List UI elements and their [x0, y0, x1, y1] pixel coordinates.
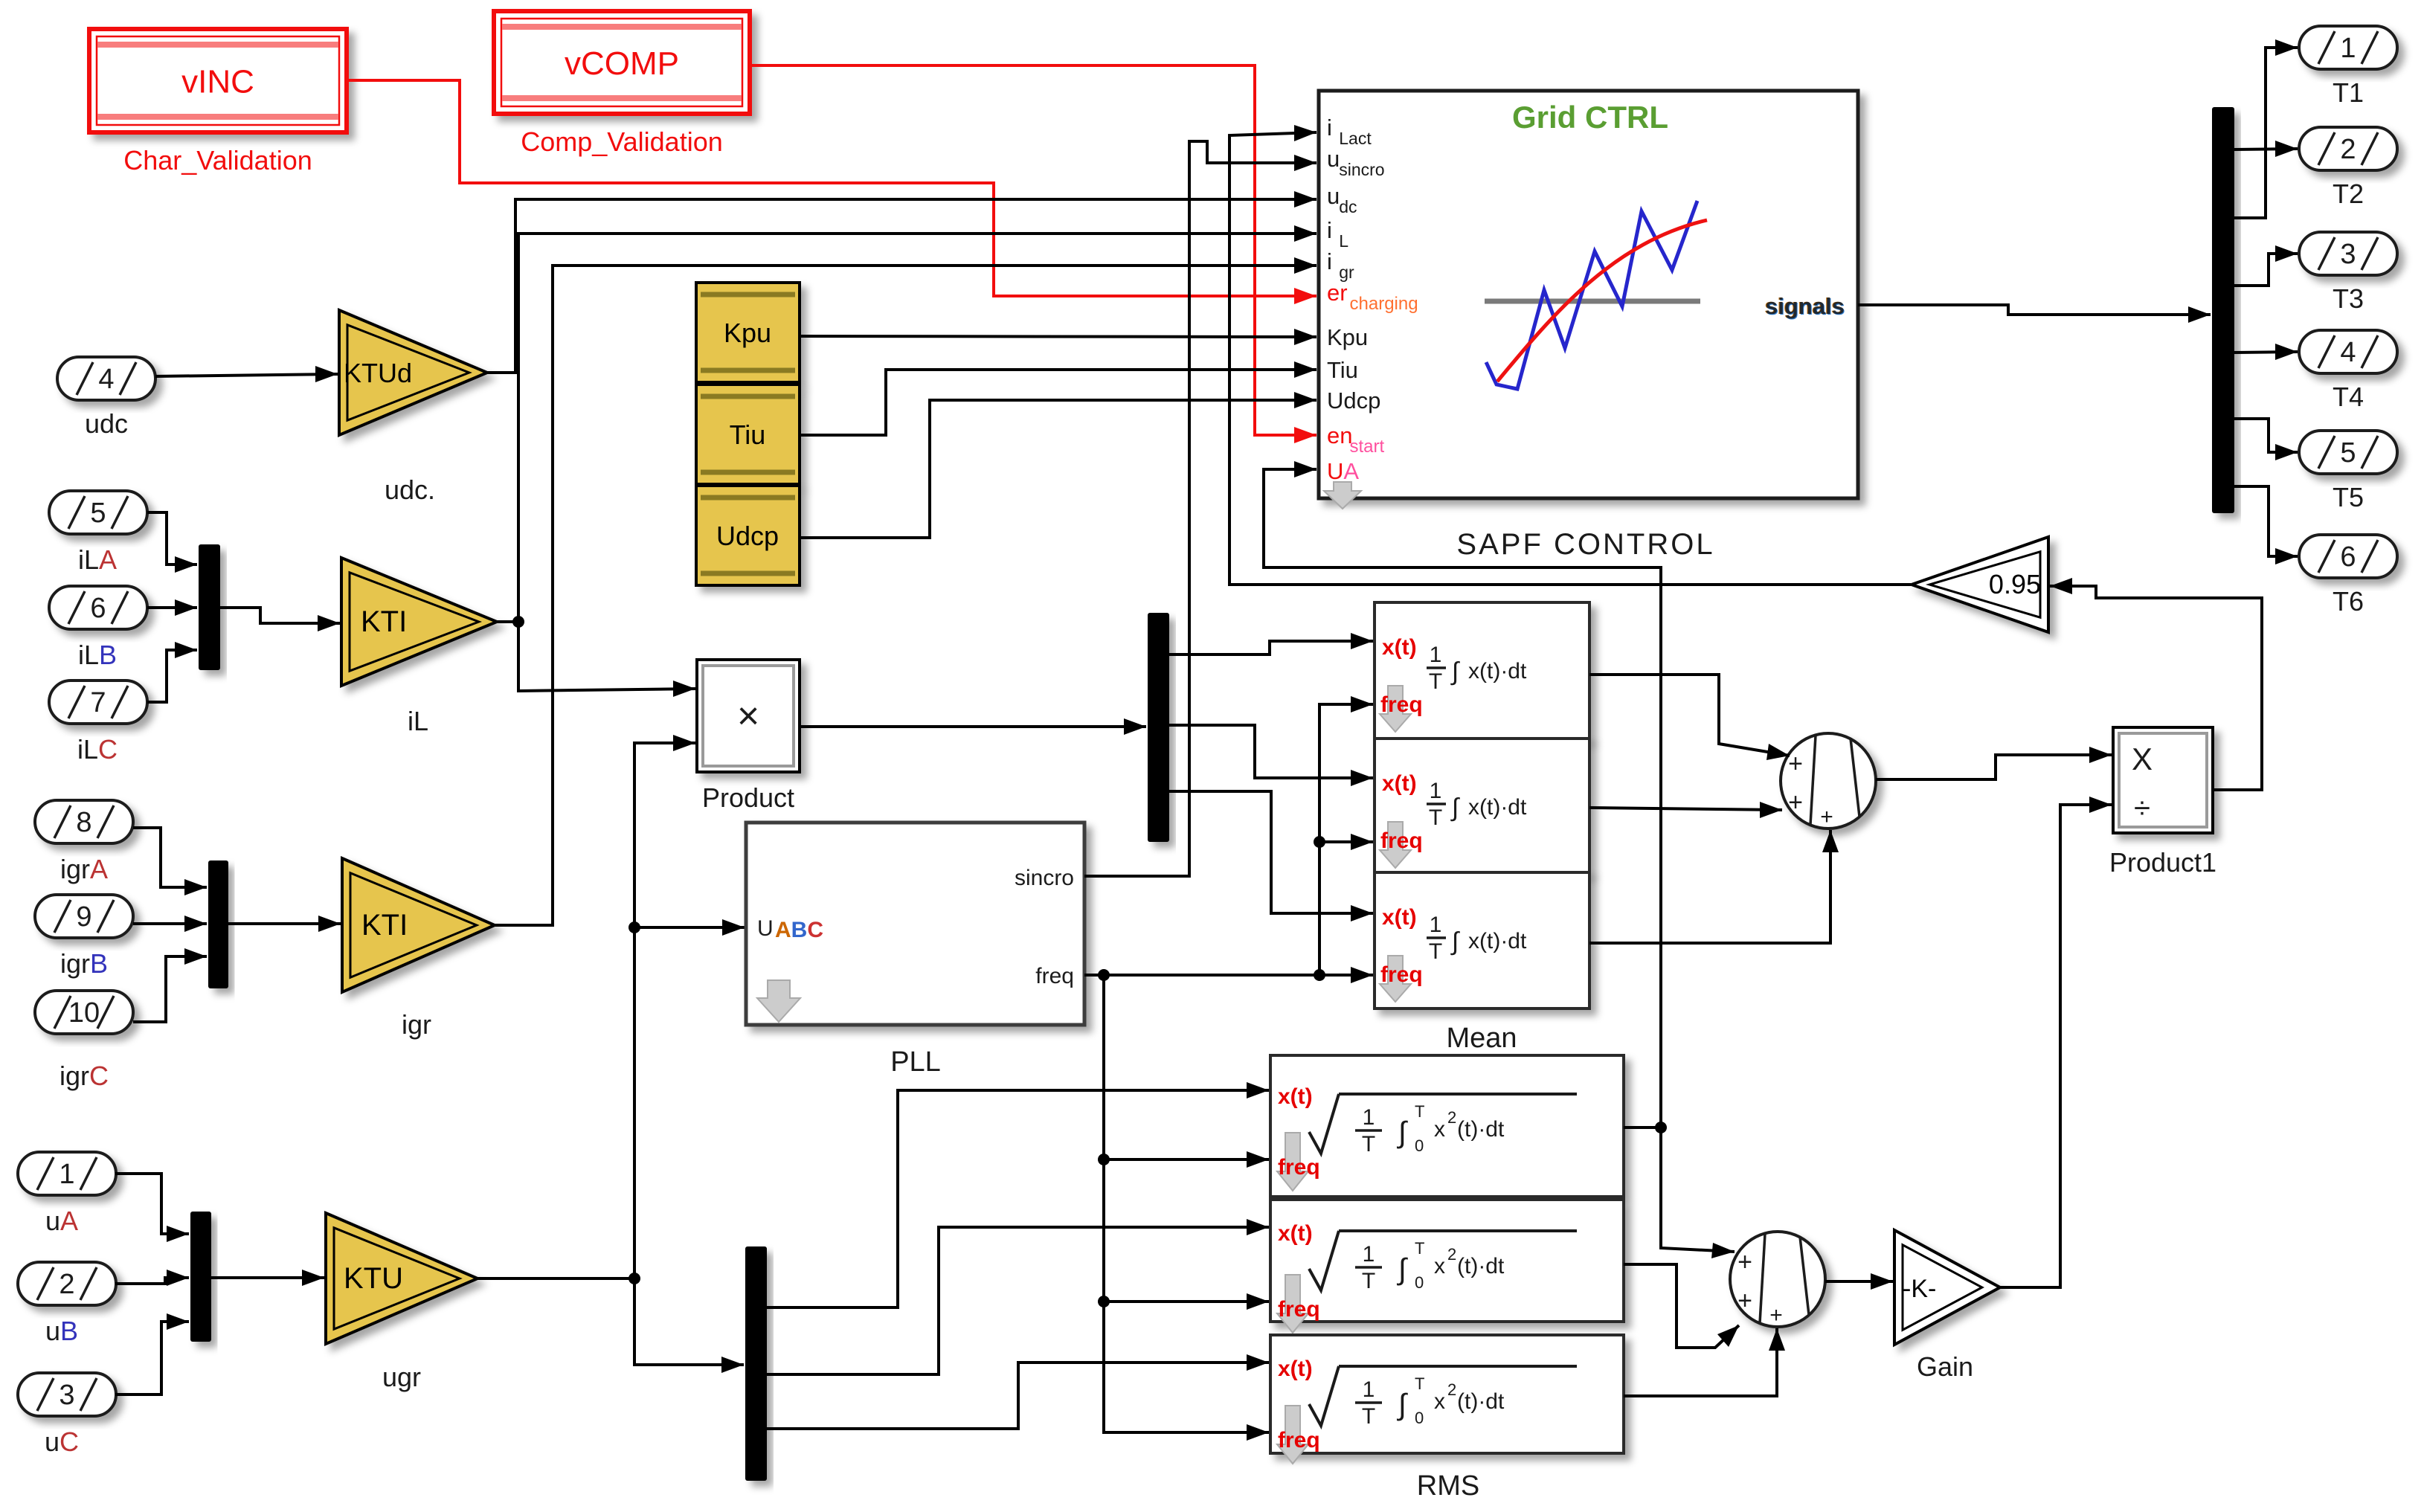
goto block vCOMP [494, 11, 750, 114]
wire uA to mux [115, 1174, 189, 1234]
svg-text:T2: T2 [2333, 178, 2364, 209]
mux ugr [190, 1212, 211, 1342]
wire ugr to PLL UABC [634, 926, 745, 929]
svg-text:vCOMP: vCOMP [565, 45, 679, 82]
svg-text:+: + [1788, 750, 1803, 778]
svg-text:6: 6 [2340, 541, 2356, 573]
wire mux to KTI igr [228, 922, 341, 925]
svg-text:T6: T6 [2333, 586, 2364, 617]
wire iLC to mux [147, 650, 197, 702]
wire Mean3 to sum [1589, 830, 1830, 943]
inport 10 igrC [35, 991, 133, 1034]
svg-text:3: 3 [2340, 239, 2356, 270]
wire uC to mux [115, 1322, 189, 1394]
svg-text:Kpu: Kpu [1327, 324, 1368, 350]
plot axis gray [1485, 299, 1700, 304]
svg-text:freq: freq [1380, 692, 1423, 717]
svg-text:9: 9 [76, 901, 91, 933]
inport 2 uB [18, 1262, 116, 1305]
svg-text:3: 3 [59, 1380, 74, 1411]
svg-text:uB: uB [45, 1316, 78, 1346]
svg-text:L: L [1339, 231, 1348, 251]
svg-text:7: 7 [90, 687, 106, 718]
svg-text:iLB: iLB [78, 640, 117, 670]
inport 3 uC [18, 1373, 116, 1416]
svg-text:10: 10 [68, 997, 100, 1029]
svg-text:1: 1 [59, 1159, 74, 1190]
inport 8 igrA [35, 800, 133, 843]
sum Add Mean [1781, 733, 1876, 829]
svg-text:igrB: igrB [60, 948, 108, 979]
svg-text:(t)·dt: (t)·dt [1457, 1389, 1505, 1414]
wire freq to RMS1 freq [1104, 1158, 1269, 1161]
wire demux to RMS1 xt [767, 1090, 1269, 1307]
mean block 3 [1375, 872, 1589, 1008]
svg-text:+: + [1737, 1248, 1752, 1276]
svg-text:2: 2 [59, 1269, 74, 1300]
wire RMS3 to sum [1624, 1328, 1777, 1396]
svg-text:8: 8 [76, 807, 91, 838]
svg-text:T: T [1415, 1374, 1424, 1393]
svg-text:u: u [1327, 146, 1340, 172]
goto block vINC [89, 29, 347, 132]
wire Product1 to gain095 [2050, 586, 2262, 790]
svg-text:udc.: udc. [385, 474, 435, 505]
outport 3 [2299, 232, 2397, 275]
svg-text:x(t): x(t) [1382, 771, 1417, 796]
svg-text:2: 2 [1447, 1108, 1456, 1127]
mux igr [208, 860, 228, 988]
svg-text:PLL: PLL [890, 1046, 941, 1078]
svg-text:×: × [737, 695, 759, 738]
wire udc to SAPF [487, 199, 1317, 373]
svg-text:RMS: RMS [1417, 1470, 1479, 1502]
svg-text:1: 1 [1363, 1242, 1375, 1267]
svg-text:Udcp: Udcp [716, 521, 779, 551]
svg-text:÷: ÷ [2134, 792, 2150, 825]
wire demux to T6 [2234, 486, 2298, 556]
plot blue sawtooth [1486, 201, 1697, 389]
gain KTU ugr [326, 1213, 478, 1344]
wire Tiu to SAPF [800, 370, 1317, 435]
svg-text:6: 6 [90, 593, 106, 624]
svg-text:Mean: Mean [1446, 1023, 1517, 1054]
svg-text:1: 1 [1363, 1377, 1375, 1402]
wire freq to Mean2 freq [1319, 840, 1373, 843]
wire iLB to mux [147, 606, 197, 609]
svg-text:x(t)·dt: x(t)·dt [1468, 659, 1527, 683]
svg-text:udc: udc [85, 408, 128, 439]
svg-text:2: 2 [1447, 1245, 1456, 1264]
gain KTI igr [342, 858, 495, 992]
svg-text:freq: freq [1380, 962, 1423, 987]
svg-text:sincro: sincro [1339, 160, 1384, 179]
svg-text:iLA: iLA [78, 544, 117, 575]
svg-text:igrA: igrA [60, 854, 108, 884]
svg-text:i: i [1327, 217, 1332, 243]
svg-text:KTU: KTU [344, 1262, 403, 1295]
wire Udcp to SAPF [800, 400, 1317, 538]
constant Udcp [696, 486, 800, 585]
svg-text:1: 1 [1430, 779, 1442, 803]
mean block 1 [1375, 602, 1589, 739]
wire Kpu to SAPF [800, 336, 1317, 337]
wire en_start (vCOMP to SAPF en) [750, 65, 1317, 435]
svg-text:T: T [1415, 1239, 1424, 1258]
svg-text:er: er [1327, 280, 1348, 306]
wire iL branch to Product [518, 622, 695, 691]
svg-text:x(t)·dt: x(t)·dt [1468, 929, 1527, 953]
svg-text:KTI: KTI [361, 909, 408, 942]
wire ugr down to demux [634, 1278, 744, 1365]
PLL block [746, 823, 1084, 1025]
svg-text:+: + [1769, 1303, 1783, 1328]
wire igrB to mux [133, 922, 207, 925]
demux ugr3 [745, 1246, 767, 1481]
svg-text:x: x [1434, 1117, 1445, 1142]
wire sum to Gain [1825, 1280, 1893, 1283]
svg-text:1: 1 [2340, 33, 2356, 64]
svg-text:freq: freq [1278, 1297, 1320, 1322]
svg-text:Char_Validation: Char_Validation [123, 145, 312, 176]
svg-text:signals: signals [1765, 293, 1845, 319]
svg-text:x(t): x(t) [1278, 1084, 1313, 1109]
wire mux to KTU [211, 1276, 324, 1279]
svg-text:Tiu: Tiu [730, 419, 766, 450]
wire demux1 to Mean1 xt [1169, 641, 1373, 654]
product block [697, 660, 800, 772]
svg-text:i: i [1327, 248, 1332, 274]
wire signals to demux [1858, 305, 2211, 315]
wire uB to mux [115, 1278, 189, 1284]
svg-text:Lact: Lact [1339, 129, 1372, 148]
svg-text:x: x [1434, 1389, 1445, 1414]
wire sincro to SAPF u [1084, 141, 1317, 876]
svg-text:T5: T5 [2333, 482, 2364, 512]
wire demux to T4 [2234, 352, 2298, 353]
inport 6 iLB [49, 586, 147, 629]
inport 9 igrB [35, 895, 133, 938]
svg-text:-K-: -K- [1903, 1275, 1936, 1303]
svg-text:5: 5 [2340, 437, 2356, 469]
wire demux to T3 [2234, 254, 2298, 286]
wire igr to SAPF [495, 266, 1317, 925]
wire demux3 to Mean3 xt [1169, 791, 1373, 913]
svg-text:UA: UA [1327, 458, 1359, 484]
gain KTI iL [341, 558, 497, 686]
svg-text:x(t): x(t) [1278, 1221, 1313, 1246]
svg-text:uC: uC [45, 1426, 79, 1457]
svg-text:x(t): x(t) [1278, 1357, 1313, 1381]
svg-text:+: + [1788, 788, 1803, 817]
svg-text:x(t): x(t) [1382, 905, 1417, 930]
svg-text:+: + [1737, 1287, 1752, 1315]
gain KTUd [339, 310, 487, 435]
wire demux to T5 [2234, 419, 2298, 452]
svg-text:vINC: vINC [181, 64, 254, 100]
inport 7 iLC [49, 681, 147, 724]
wire igrA to mux [133, 828, 207, 887]
wire igrC to mux [133, 956, 207, 1022]
gain 0.95 [1912, 537, 2048, 632]
wire freq down to RMS3 freq [1104, 975, 1269, 1432]
svg-text:∫: ∫ [1450, 927, 1460, 956]
wire freq up to Mean1 freq [1319, 704, 1373, 975]
svg-text:KTUd: KTUd [344, 358, 412, 388]
mean block 2 [1375, 739, 1589, 872]
plot red curve [1497, 220, 1707, 382]
svg-text:T3: T3 [2333, 283, 2364, 314]
svg-text:1: 1 [1430, 643, 1442, 667]
svg-text:Product: Product [702, 782, 794, 813]
svg-text:0: 0 [1415, 1136, 1424, 1155]
svg-text:2: 2 [2340, 134, 2356, 165]
wire demux to RMS2 xt [767, 1227, 1269, 1374]
wire demux to T1 [2234, 48, 2298, 218]
svg-text:T: T [1415, 1102, 1424, 1121]
svg-text:freq: freq [1278, 1155, 1320, 1180]
product1 block [2113, 727, 2213, 833]
svg-text:x(t)·dt: x(t)·dt [1468, 795, 1527, 820]
svg-text:∫: ∫ [1450, 657, 1460, 686]
svg-text:0: 0 [1415, 1273, 1424, 1292]
svg-text:Gain: Gain [1917, 1351, 1973, 1382]
outport 6 [2299, 535, 2397, 578]
rms block 2 [1270, 1200, 1624, 1322]
svg-text:Comp_Validation: Comp_Validation [521, 126, 723, 157]
constant Kpu [696, 283, 800, 382]
wire iL to SAPF [497, 234, 1317, 622]
wire Mean2 to sum [1589, 808, 1782, 810]
wire er_charging (vINC to SAPF er) [347, 80, 1317, 296]
svg-text:Grid CTRL: Grid CTRL [1512, 100, 1668, 135]
svg-text:2: 2 [1447, 1380, 1456, 1399]
svg-text:KTI: KTI [361, 605, 407, 638]
outport 1 [2299, 26, 2397, 69]
svg-text:uA: uA [45, 1206, 78, 1236]
svg-text:T: T [1429, 939, 1442, 964]
wire Gain to Product1 div [2000, 805, 2112, 1287]
svg-text:igrC: igrC [60, 1061, 109, 1091]
wire freq to Mean3 freq [1084, 974, 1373, 977]
wire sum to Product1 [1876, 755, 2112, 779]
mux iL [199, 544, 220, 670]
wire mux to KTI iL [220, 608, 340, 623]
wire gain095 to SAPF iLact [1229, 132, 1911, 585]
SAPF CONTROL subsystem [1319, 91, 1858, 498]
svg-text:0: 0 [1415, 1409, 1424, 1427]
rms block 1 [1270, 1055, 1624, 1197]
svg-text:iL: iL [408, 706, 428, 736]
svg-text:SAPF CONTROL: SAPF CONTROL [1456, 528, 1714, 561]
svg-text:X: X [2132, 741, 2153, 776]
svg-text:1: 1 [1363, 1105, 1375, 1130]
wire demux to RMS3 xt [767, 1363, 1269, 1429]
sum Add RMS [1730, 1232, 1825, 1328]
svg-text:(t)·dt: (t)·dt [1457, 1117, 1505, 1142]
svg-text:T4: T4 [2333, 382, 2364, 412]
svg-text:U: U [757, 916, 774, 941]
constant Tiu [696, 385, 800, 484]
svg-text:x(t): x(t) [1382, 635, 1417, 660]
inport 4 udc [57, 357, 155, 400]
wire iLA to mux [147, 512, 197, 564]
svg-text:start: start [1350, 437, 1385, 457]
svg-text:en: en [1327, 422, 1352, 448]
wire ugr up to Product in2 [634, 743, 695, 1278]
svg-text:T: T [1362, 1404, 1375, 1429]
inport 5 iLA [49, 491, 147, 534]
demux product [1148, 613, 1169, 842]
gain -K- [1894, 1230, 2000, 1345]
svg-text:x: x [1434, 1254, 1445, 1278]
svg-text:charging: charging [1350, 294, 1418, 314]
svg-text:T1: T1 [2333, 77, 2364, 108]
wire ugr out [478, 1277, 634, 1280]
svg-text:T: T [1362, 1269, 1375, 1293]
svg-text:+: + [1820, 805, 1833, 829]
rms block 3 [1270, 1335, 1624, 1453]
svg-text:T: T [1429, 669, 1442, 694]
svg-text:Product1: Product1 [2109, 847, 2216, 878]
outport 4 [2299, 330, 2397, 373]
svg-text:0.95: 0.95 [1989, 569, 2041, 599]
svg-text:1: 1 [1430, 913, 1442, 937]
svg-text:freq: freq [1278, 1428, 1320, 1453]
svg-text:freq: freq [1035, 964, 1074, 988]
wire demux to T2 [2234, 149, 2298, 149]
outport 2 [2299, 127, 2397, 170]
wire freq to RMS2 freq [1104, 1300, 1269, 1303]
svg-text:igr: igr [402, 1009, 431, 1040]
svg-text:freq: freq [1380, 829, 1423, 853]
svg-text:T: T [1362, 1132, 1375, 1156]
inport 1 uA [18, 1152, 116, 1195]
svg-text:Udcp: Udcp [1327, 387, 1380, 414]
outport 5 [2299, 431, 2397, 474]
wire RMS2 to sum [1624, 1264, 1739, 1348]
svg-text:4: 4 [2340, 337, 2356, 368]
demux signals T [2212, 107, 2234, 513]
wire demux2 to Mean2 xt [1169, 725, 1373, 778]
svg-text:4: 4 [98, 364, 114, 395]
svg-text:Kpu: Kpu [724, 318, 771, 348]
svg-text:i: i [1327, 115, 1332, 141]
svg-text:(t)·dt: (t)·dt [1457, 1254, 1505, 1278]
svg-text:u: u [1327, 183, 1340, 209]
svg-text:∫: ∫ [1450, 794, 1460, 822]
wire Product to demux [800, 725, 1146, 728]
svg-text:ugr: ugr [382, 1362, 421, 1392]
svg-text:dc: dc [1339, 197, 1357, 216]
wire RMS1 to SAPF UA [1264, 469, 1661, 1127]
wire Mean1 to sum [1589, 675, 1790, 756]
svg-text:ABC: ABC [775, 918, 823, 942]
svg-text:iLC: iLC [77, 734, 118, 765]
svg-text:T: T [1429, 805, 1442, 830]
wire RMS1 to sum [1661, 1127, 1735, 1252]
wire udc port4 to KTUd [155, 374, 338, 376]
svg-text:5: 5 [90, 498, 106, 529]
svg-text:sincro: sincro [1015, 866, 1074, 890]
svg-text:Tiu: Tiu [1327, 357, 1358, 383]
